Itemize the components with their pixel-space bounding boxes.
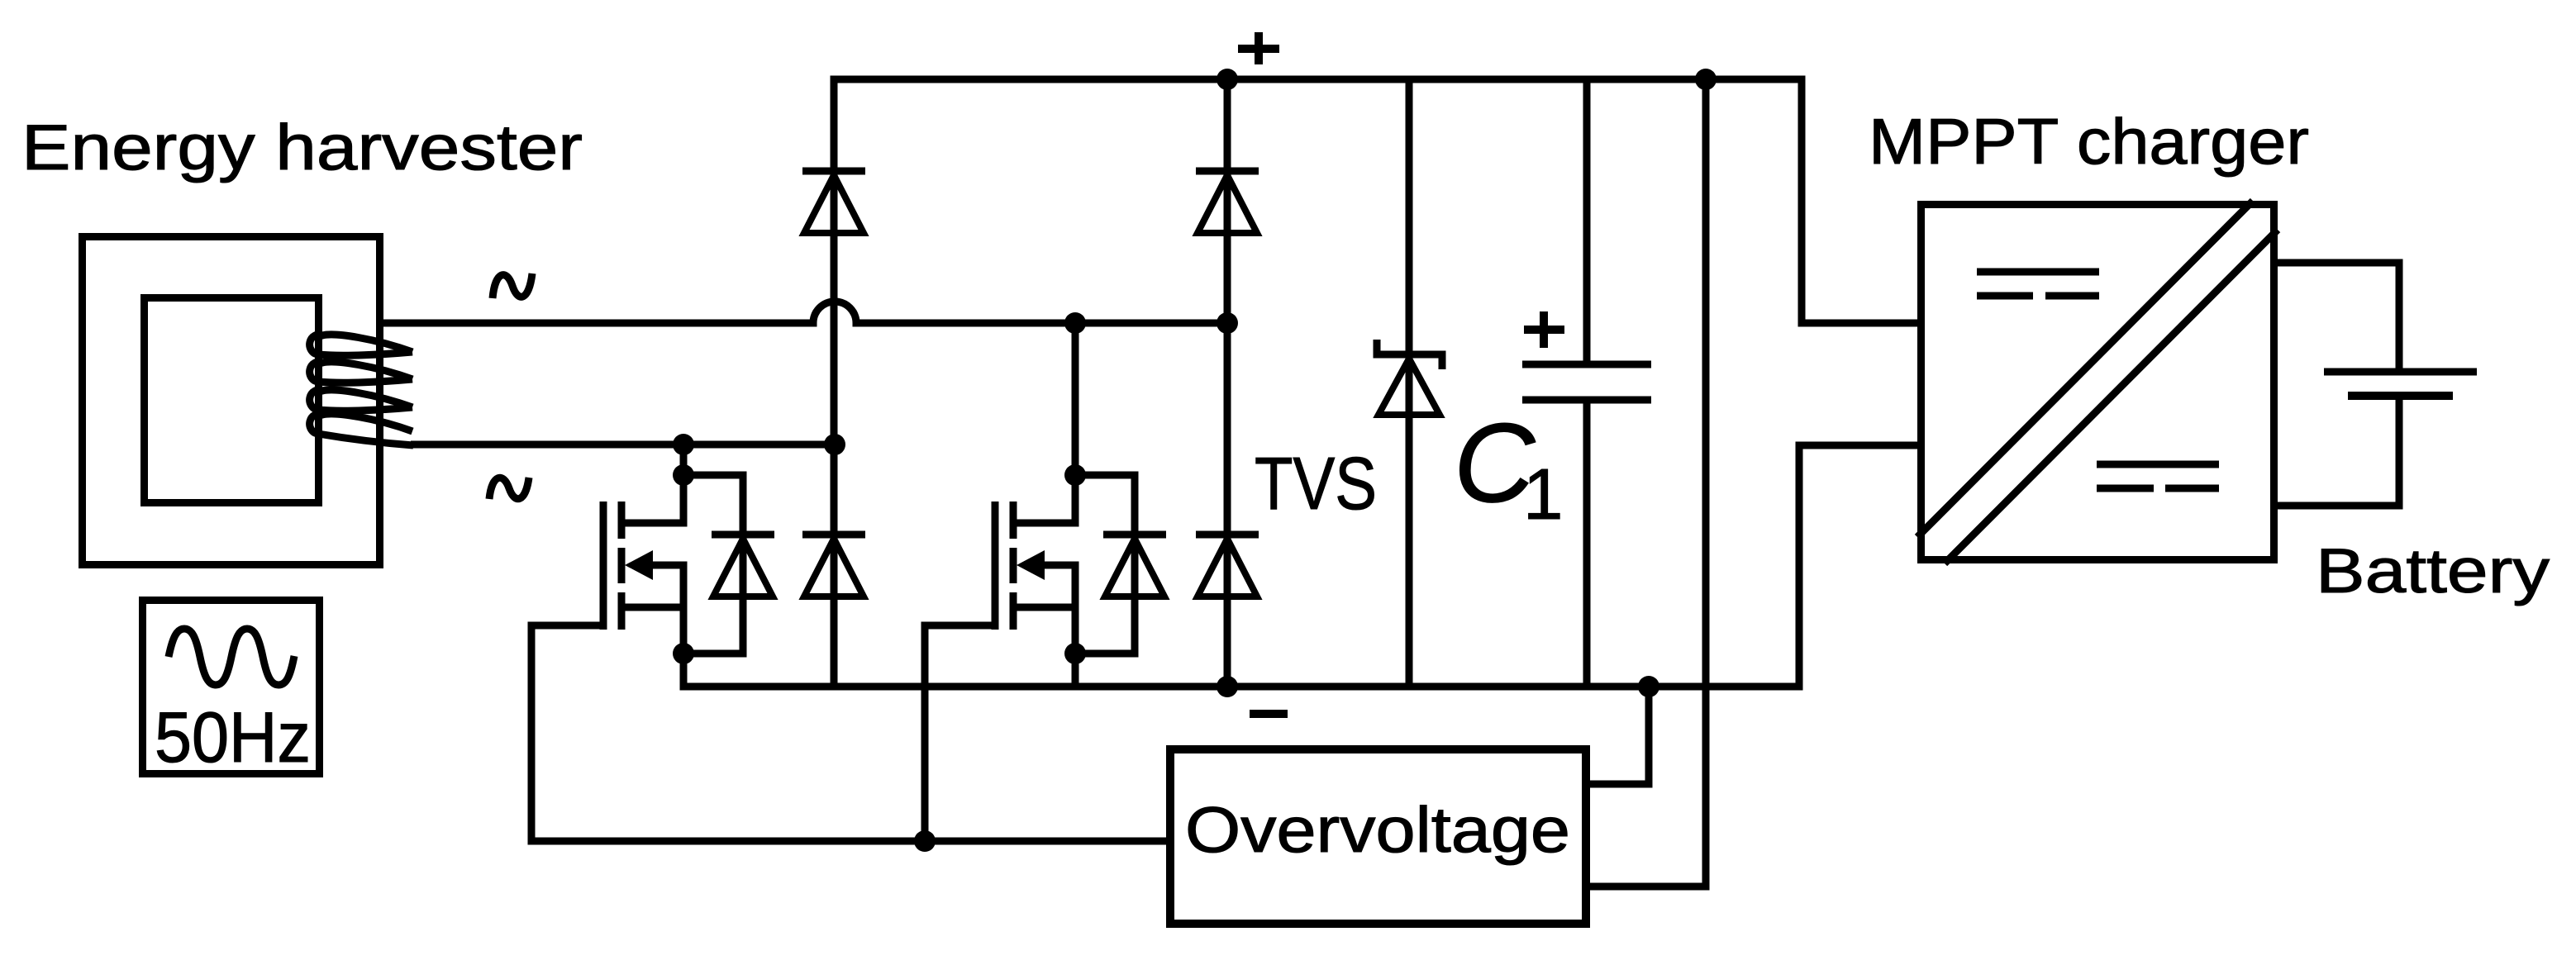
junction dot: Q1 source node bbox=[673, 643, 694, 664]
MOSFET Q1 bbox=[603, 444, 774, 654]
label: + (plus on + rail) bbox=[1238, 32, 1279, 64]
junction dot: D4 on - rail bbox=[1217, 676, 1238, 697]
Q2 drain connection bbox=[1017, 323, 1075, 523]
wire: overvoltage link to - rail bbox=[1590, 687, 1649, 784]
capacitor C1 bottom plate bbox=[1522, 397, 1651, 404]
Q2 source connection bbox=[1017, 604, 1075, 611]
energy harvester outer box bbox=[83, 237, 380, 565]
junction dot: Q2 drain / body diode bbox=[1064, 464, 1086, 486]
junction dot: Q2 drain on phase A bbox=[1064, 312, 1086, 334]
MPPT diagonal 1 bbox=[1917, 201, 2253, 537]
MPPT DC symbol output bbox=[2097, 464, 2219, 488]
svg-text:Energy harvester: Energy harvester bbox=[21, 111, 583, 183]
MOSFET Q2 bbox=[995, 323, 1166, 687]
Q1 body-diode branch bbox=[683, 475, 743, 654]
junction dot: overvoltage sense on + rail bbox=[1695, 69, 1717, 90]
Q2 gate bar bbox=[992, 502, 999, 630]
coil turn 3 bbox=[310, 390, 412, 411]
coil turn 1 bbox=[310, 335, 412, 355]
junction dot: Q1 drain / body diode bbox=[673, 464, 694, 486]
tilde AC mark top bbox=[493, 273, 532, 298]
capacitor C1 top plate bbox=[1522, 361, 1651, 368]
junction dot: D1/D3 on phase B bbox=[824, 434, 845, 455]
Q1 drain connection bbox=[625, 444, 683, 523]
wire: phase A from harvester (with hop over bridge column) bbox=[383, 302, 1227, 323]
MPPT diagonal 2 bbox=[1945, 230, 2278, 563]
MPPT charger box bbox=[1921, 205, 2274, 560]
MPPT DC symbol input bbox=[1977, 272, 2099, 296]
sine wave bbox=[169, 629, 294, 685]
svg-text:TVS: TVS bbox=[1255, 443, 1377, 525]
Q2 source bottom link bbox=[1072, 654, 1079, 687]
junction dot: D2/D4 on phase A bbox=[1217, 312, 1238, 334]
Q2 body-diode branch bbox=[1075, 475, 1135, 654]
label: + (C1 polarity) bbox=[1524, 311, 1564, 348]
wire: TVS column bbox=[1406, 79, 1413, 687]
junction dot: Q1 drain on phase B bbox=[673, 434, 694, 455]
wire: phase B from harvester bbox=[411, 441, 835, 449]
wire: MPPT output + to battery bbox=[2278, 263, 2399, 372]
50Hz source box bbox=[143, 601, 320, 774]
overvoltage box bbox=[1170, 749, 1586, 924]
svg-text:50Hz: 50Hz bbox=[155, 698, 311, 777]
diode D4 cathode bar bbox=[1196, 531, 1259, 539]
TVS zener cathode bar with hooks bbox=[1377, 340, 1442, 369]
svg-text:MPPT charger: MPPT charger bbox=[1869, 105, 2309, 178]
junction dot: Q2 source node bbox=[1064, 643, 1086, 664]
battery short plate bbox=[2348, 392, 2453, 400]
coil turn 2 bbox=[310, 362, 412, 383]
Q1 body diode cathode bar bbox=[712, 531, 774, 539]
svg-text:1: 1 bbox=[1523, 454, 1563, 535]
wire: C1 column top bbox=[1583, 79, 1591, 364]
diode D2 cathode bar bbox=[1196, 168, 1259, 175]
Q2 channel segments bbox=[1010, 502, 1017, 630]
tilde AC mark bottom bbox=[489, 478, 529, 499]
Q1 body arrowhead bbox=[625, 550, 653, 580]
wire: C1 column bottom bbox=[1583, 400, 1591, 687]
Q2 body diode bbox=[1105, 539, 1164, 597]
junction dot: D2 top on + rail bbox=[1217, 69, 1238, 90]
Q1 body diode bbox=[713, 539, 773, 597]
diode D3 bbox=[804, 539, 864, 597]
battery long plate bbox=[2324, 368, 2477, 376]
Q1 channel segments bbox=[618, 502, 626, 630]
wire: Q2 gate drop bbox=[925, 625, 995, 841]
Q2 body arrow line bbox=[1043, 565, 1075, 654]
label: C1 bbox=[1454, 400, 1563, 535]
TVS diode bbox=[1378, 359, 1440, 415]
diode D3 cathode bar bbox=[802, 531, 865, 539]
wire: Q1 gate net bbox=[531, 625, 1166, 841]
diode D1 cathode bar bbox=[802, 168, 865, 175]
wire: battery - return to MPPT bbox=[2278, 396, 2399, 506]
wire: + rail with left bridge column and drop to MPPT bbox=[834, 79, 1917, 687]
Q1 gate bar bbox=[600, 502, 607, 630]
diode D4 bbox=[1198, 539, 1257, 597]
label: - (minus on - rail) bbox=[1250, 710, 1288, 718]
wire: - rail from Q1 source to MPPT input bbox=[683, 445, 1917, 687]
Q2 body arrowhead bbox=[1017, 550, 1045, 580]
wire: overvoltage sense to + rail bbox=[1590, 79, 1706, 887]
transformer core inner box bbox=[145, 298, 319, 503]
svg-text:Overvoltage: Overvoltage bbox=[1185, 793, 1570, 866]
diode D1 bbox=[804, 175, 864, 233]
coil turn 4 bbox=[310, 414, 413, 445]
junction dot: gate net bbox=[914, 830, 936, 852]
Q2 body diode cathode bar bbox=[1103, 531, 1166, 539]
wire: right bridge column bbox=[1224, 79, 1231, 687]
junction dot: overvoltage link on - rail bbox=[1638, 676, 1659, 697]
diode D2 bbox=[1198, 175, 1257, 233]
Q1 body arrow line bbox=[651, 565, 683, 654]
svg-text:Battery: Battery bbox=[2316, 536, 2550, 606]
Q1 source connection bbox=[625, 604, 683, 611]
